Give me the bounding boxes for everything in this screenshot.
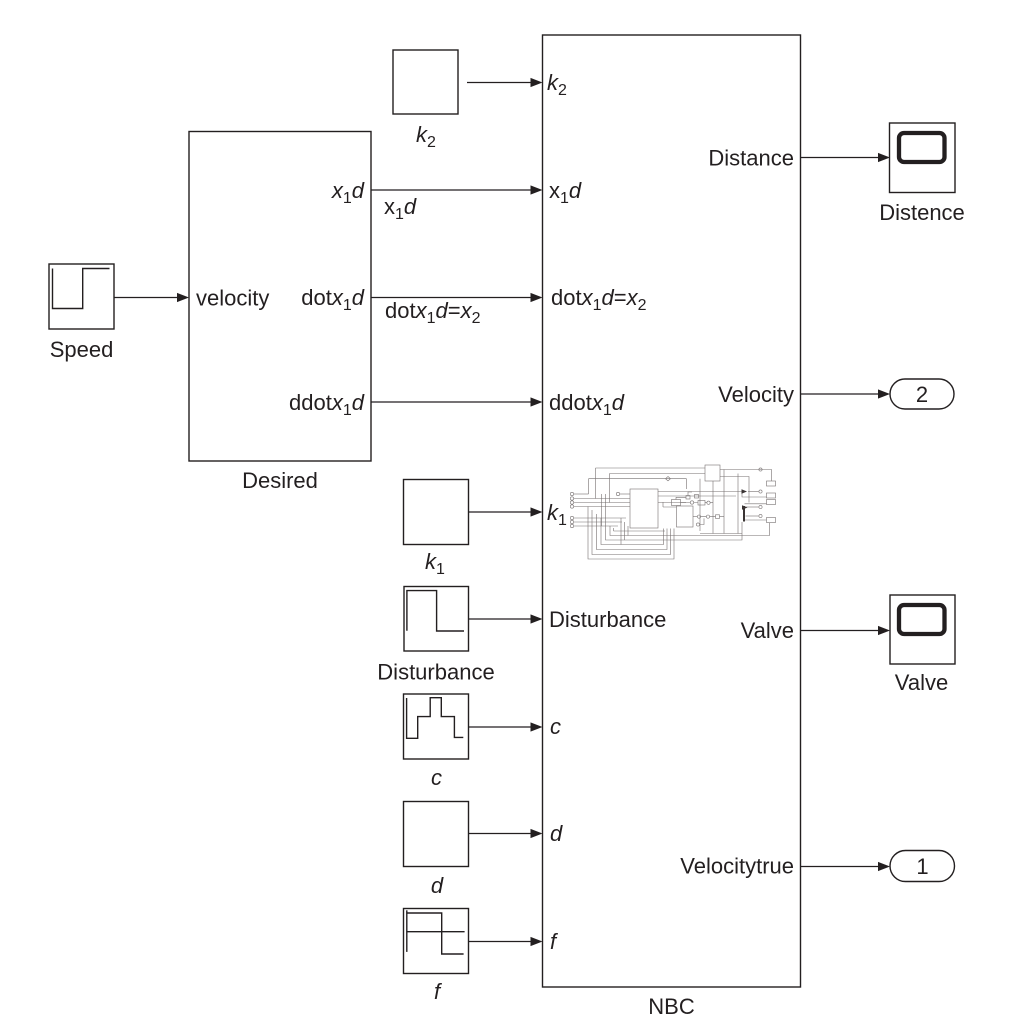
svg-text:1: 1	[916, 854, 928, 879]
wire NBC to Valve scope	[801, 630, 880, 632]
block B	[677, 506, 694, 527]
square wave icon	[406, 910, 408, 952]
svg-text:c: c	[550, 714, 561, 739]
block Speed (step source)	[49, 264, 114, 329]
outport 2	[890, 379, 954, 409]
wire dotx1d Desired to NBC	[371, 297, 532, 299]
small gain D	[672, 500, 681, 506]
block f (square wave source)	[404, 909, 469, 974]
wire k2 to NBC	[467, 82, 532, 84]
wire NBC to outport 1	[801, 866, 880, 868]
svg-text:Distance: Distance	[708, 146, 794, 171]
svg-text:velocity: velocity	[196, 286, 269, 311]
wire f to NBC	[469, 941, 532, 943]
block Disturbance (step source)	[404, 587, 469, 652]
wire x1d Desired to NBC	[371, 189, 532, 191]
svg-text:2: 2	[916, 382, 928, 407]
block k2 (constant source)	[393, 50, 458, 114]
left input ports row 5-7	[570, 516, 573, 519]
lower bus lines	[614, 530, 666, 532]
svg-text:d: d	[550, 821, 563, 846]
tall thin rect wires	[712, 481, 714, 534]
feedback loops	[588, 507, 674, 560]
svg-text:Velocity: Velocity	[718, 382, 794, 407]
svg-text:Valve: Valve	[895, 670, 948, 695]
C outputs	[720, 470, 772, 482]
svg-text:Valve: Valve	[741, 618, 794, 643]
dark marks	[742, 489, 748, 494]
bus verticals	[601, 494, 603, 526]
left input ports row 1-4	[570, 492, 573, 495]
svg-text:Desired: Desired	[242, 468, 318, 493]
block Desired (subsystem)	[189, 132, 371, 462]
svg-text:Distence: Distence	[879, 200, 965, 225]
svg-text:c: c	[431, 765, 442, 790]
wire Speed to Desired	[114, 297, 178, 299]
block k1 (constant source)	[404, 480, 469, 545]
wire NBC to Distence scope	[801, 157, 880, 159]
svg-text:Disturbance: Disturbance	[377, 660, 494, 685]
wire d to NBC	[469, 833, 532, 835]
wire Disturbance to NBC	[469, 618, 532, 620]
svg-text:ddotx1d: ddotx1d	[549, 390, 625, 419]
block Distence (scope)	[890, 123, 956, 193]
input marker circle	[616, 492, 619, 495]
top routing to C	[596, 468, 706, 499]
block NBC (subsystem)	[543, 35, 801, 987]
block d (constant source)	[404, 802, 469, 867]
main block A	[630, 489, 658, 528]
step down icon	[407, 591, 464, 631]
pulse icon	[407, 698, 464, 739]
step icon	[53, 269, 110, 309]
svg-text:Disturbance: Disturbance	[549, 607, 666, 632]
svg-text:d: d	[431, 873, 444, 898]
right output blocks	[767, 481, 776, 486]
block c (pulse source)	[404, 694, 469, 759]
block Valve (scope)	[890, 595, 955, 664]
short verticals below A	[621, 518, 628, 545]
svg-text:Speed: Speed	[50, 337, 114, 362]
svg-text:Velocitytrue: Velocitytrue	[680, 854, 794, 879]
wire ddotx1d Desired to NBC	[371, 401, 532, 403]
wire NBC to outport 2	[801, 393, 880, 395]
wire k1 to NBC	[469, 511, 532, 513]
svg-text:NBC: NBC	[648, 994, 695, 1019]
mid tiny elements	[686, 496, 690, 500]
svg-text:ddotx1d: ddotx1d	[289, 390, 365, 419]
svg-text:dotx1d: dotx1d	[301, 285, 365, 314]
wire c to NBC	[469, 726, 532, 728]
mini subsystem thumbnail inside NBC	[570, 465, 775, 559]
outport 1	[890, 851, 955, 882]
top block C	[705, 465, 720, 481]
B outputs	[693, 516, 697, 518]
A outputs to right	[658, 491, 743, 493]
